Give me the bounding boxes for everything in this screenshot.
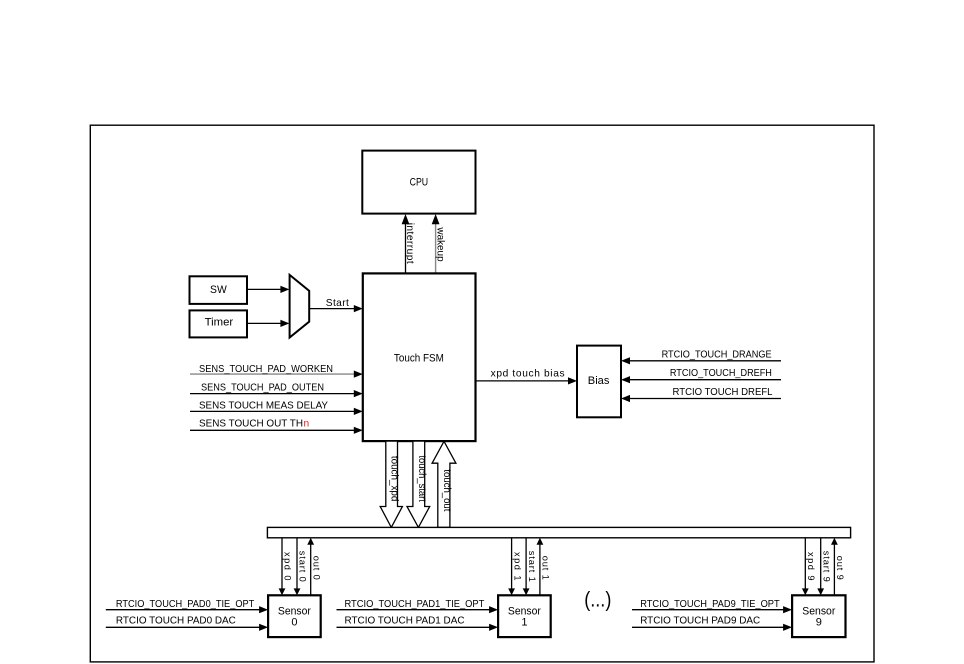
svg-text:n: n <box>304 418 310 429</box>
Timer block <box>190 310 248 337</box>
svg-text:out 9: out 9 <box>835 556 845 580</box>
block arrow touch_out (up) <box>432 441 456 527</box>
svg-text:Bias: Bias <box>588 375 610 387</box>
wire start_9 (bus to Sensor 9) <box>817 538 831 595</box>
wire interrupt (Touch FSM to CPU) <box>402 214 416 273</box>
wire RTCIO_TOUCH_PAD0_DAC <box>106 616 268 631</box>
CPU U1 <box>362 151 475 214</box>
wire RTCIO_TOUCH_DREFH <box>621 368 781 383</box>
svg-text:SENS_TOUCH_PAD_WORKEN: SENS_TOUCH_PAD_WORKEN <box>199 364 333 375</box>
svg-text:start 9: start 9 <box>821 551 831 582</box>
wire out_1 (Sensor 1 to bus) <box>537 538 551 596</box>
wire RTCIO_TOUCH_PAD1_TIE_OPT <box>337 599 499 613</box>
wire SENS_TOUCH_OUT_THn <box>190 418 363 434</box>
svg-text:xpd touch bias: xpd touch bias <box>491 369 565 380</box>
wire xpd_1 (bus to Sensor 1) <box>508 538 522 595</box>
svg-text:start 0: start 0 <box>298 551 308 582</box>
SW block <box>190 276 248 304</box>
svg-text:Timer: Timer <box>205 317 234 329</box>
svg-text:RTCIO TOUCH DREFL: RTCIO TOUCH DREFL <box>673 387 773 398</box>
wire SENS_TOUCH_PAD_OUTEN <box>190 383 363 398</box>
svg-text:RTCIO TOUCH PAD1 DAC: RTCIO TOUCH PAD1 DAC <box>345 616 465 627</box>
svg-text:RTCIO TOUCH PAD9 DAC: RTCIO TOUCH PAD9 DAC <box>640 616 760 627</box>
wire xpd_touch_bias (Touch FSM to Bias) <box>476 369 578 385</box>
wire Timer to mux <box>247 320 289 327</box>
wire RTCIO_TOUCH_PAD9_DAC <box>632 616 792 631</box>
wire RTCIO_TOUCH_PAD0_TIE_OPT <box>106 599 268 613</box>
wire RTCIO_TOUCH_PAD1_DAC <box>337 616 499 631</box>
svg-text:0: 0 <box>291 616 297 628</box>
wire SENS_TOUCH_PAD_WORKEN <box>190 364 363 378</box>
block arrow touch_start (down) <box>407 441 430 527</box>
wire out_9 (Sensor 9 to bus) <box>831 538 845 596</box>
svg-text:RTCIO_TOUCH_DRANGE: RTCIO_TOUCH_DRANGE <box>662 349 772 360</box>
svg-text:RTCIO_TOUCH_DREFH: RTCIO_TOUCH_DREFH <box>670 368 772 379</box>
svg-text:SENS_TOUCH_PAD_OUTEN: SENS_TOUCH_PAD_OUTEN <box>201 383 324 394</box>
wire RTCIO_TOUCH_PAD9_TIE_OPT <box>632 599 792 613</box>
svg-text:Touch FSM: Touch FSM <box>394 352 444 364</box>
svg-text:SW: SW <box>210 284 227 296</box>
Bias block <box>577 346 621 418</box>
svg-text:xpd 0: xpd 0 <box>283 552 293 581</box>
svg-text:touch_start: touch_start <box>416 455 427 502</box>
svg-text:out 1: out 1 <box>541 556 551 580</box>
mux (start select) <box>290 275 310 338</box>
Touch FSM U2 <box>363 273 476 441</box>
wire SW to mux <box>247 286 289 293</box>
svg-text:touch_out: touch_out <box>441 469 452 511</box>
svg-text:SENS TOUCH OUT TH: SENS TOUCH OUT TH <box>199 418 303 429</box>
svg-text:1: 1 <box>521 616 527 628</box>
svg-text:9: 9 <box>816 616 822 628</box>
svg-text:RTCIO TOUCH PAD0 DAC: RTCIO TOUCH PAD0 DAC <box>116 616 236 627</box>
wire xpd_0 (bus to Sensor 0) <box>279 538 293 595</box>
Sensor 0 block <box>268 595 321 637</box>
wire Start (mux to Touch FSM) <box>309 298 363 312</box>
Sensor 9 block <box>792 595 845 637</box>
svg-text:touch_xpd: touch_xpd <box>388 456 399 502</box>
wire out_0 (Sensor 0 to bus) <box>307 538 321 596</box>
wire SENS_TOUCH_MEAS_DELAY <box>190 400 363 415</box>
block arrow touch_xpd (down) <box>380 441 402 527</box>
svg-text:RTCIO_TOUCH_PAD9_TIE_OPT: RTCIO_TOUCH_PAD9_TIE_OPT <box>640 599 780 610</box>
wire wakeup (Touch FSM to CPU) <box>432 214 446 273</box>
wire xpd_9 (bus to Sensor 9) <box>802 538 816 595</box>
svg-text:wakeup: wakeup <box>434 226 445 261</box>
svg-text:Start: Start <box>326 298 349 309</box>
svg-text:(...): (...) <box>584 588 611 611</box>
wire start_1 (bus to Sensor 1) <box>523 538 537 595</box>
svg-text:CPU: CPU <box>410 177 429 189</box>
svg-text:out 0: out 0 <box>311 556 321 580</box>
svg-text:xpd 1: xpd 1 <box>512 552 522 581</box>
svg-text:RTCIO_TOUCH_PAD0_TIE_OPT: RTCIO_TOUCH_PAD0_TIE_OPT <box>116 599 254 610</box>
wire RTCIO_TOUCH_DRANGE <box>621 349 781 364</box>
wire RTCIO_TOUCH_DREFL <box>621 387 781 402</box>
bus bar <box>267 527 850 537</box>
wire start_0 (bus to Sensor 0) <box>294 538 308 595</box>
Sensor 1 block <box>498 595 551 637</box>
svg-text:RTCIO_TOUCH_PAD1_TIE_OPT: RTCIO_TOUCH_PAD1_TIE_OPT <box>345 599 485 610</box>
svg-text:interrupt: interrupt <box>404 223 415 264</box>
svg-text:start 1: start 1 <box>527 551 537 582</box>
svg-text:xpd 9: xpd 9 <box>806 552 816 581</box>
svg-text:SENS TOUCH MEAS DELAY: SENS TOUCH MEAS DELAY <box>199 400 328 411</box>
